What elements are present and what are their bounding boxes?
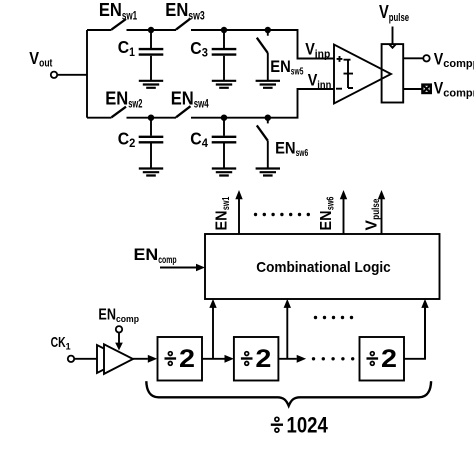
svg-text:CK: CK bbox=[51, 335, 66, 351]
svg-text:C: C bbox=[118, 128, 130, 148]
svg-text:pulse: pulse bbox=[371, 198, 382, 219]
svg-text:V: V bbox=[434, 80, 444, 98]
svg-text:comp: comp bbox=[116, 314, 139, 325]
svg-text:V: V bbox=[379, 2, 389, 22]
svg-text:EN: EN bbox=[171, 89, 194, 109]
svg-text:2: 2 bbox=[255, 345, 271, 373]
svg-text:C: C bbox=[190, 128, 202, 148]
svg-text:comp: comp bbox=[158, 254, 176, 266]
svg-text:C: C bbox=[190, 38, 202, 58]
svg-text:sw4: sw4 bbox=[194, 99, 209, 111]
svg-text:C: C bbox=[118, 37, 130, 57]
svg-text:2: 2 bbox=[381, 345, 397, 373]
svg-text:EN: EN bbox=[165, 0, 188, 20]
svg-text:3: 3 bbox=[202, 48, 208, 60]
svg-text:EN: EN bbox=[318, 211, 335, 231]
svg-text:EN: EN bbox=[270, 58, 291, 76]
svg-text:1: 1 bbox=[66, 342, 72, 353]
svg-text:sw3: sw3 bbox=[188, 10, 205, 22]
svg-text:2: 2 bbox=[129, 138, 135, 150]
svg-text:EN: EN bbox=[99, 0, 122, 20]
svg-text:sw6: sw6 bbox=[296, 148, 309, 159]
svg-text:V: V bbox=[364, 220, 381, 231]
svg-text:sw6: sw6 bbox=[326, 196, 337, 210]
svg-text:EN: EN bbox=[275, 139, 296, 157]
svg-text:sw1: sw1 bbox=[122, 10, 138, 22]
svg-text:compno: compno bbox=[443, 87, 474, 99]
svg-text:out: out bbox=[39, 58, 53, 70]
svg-text:sw5: sw5 bbox=[291, 67, 304, 78]
svg-text:2: 2 bbox=[179, 345, 195, 373]
svg-text:inp: inp bbox=[315, 48, 331, 60]
svg-text:V: V bbox=[29, 48, 39, 68]
svg-text:1024: 1024 bbox=[287, 413, 329, 438]
svg-text:sw1: sw1 bbox=[221, 196, 232, 210]
svg-text:pulse: pulse bbox=[389, 12, 409, 24]
svg-text:inn: inn bbox=[317, 79, 331, 91]
svg-text:comppo: comppo bbox=[443, 58, 474, 70]
svg-text:EN: EN bbox=[214, 211, 231, 231]
svg-text:sw2: sw2 bbox=[128, 99, 142, 111]
svg-text:EN: EN bbox=[98, 307, 116, 324]
svg-text:EN: EN bbox=[134, 245, 159, 264]
svg-text:4: 4 bbox=[202, 138, 209, 150]
svg-text:1: 1 bbox=[129, 47, 135, 59]
svg-text:V: V bbox=[434, 50, 444, 68]
svg-text:Combinational Logic: Combinational Logic bbox=[256, 259, 391, 276]
svg-text:EN: EN bbox=[105, 89, 128, 109]
